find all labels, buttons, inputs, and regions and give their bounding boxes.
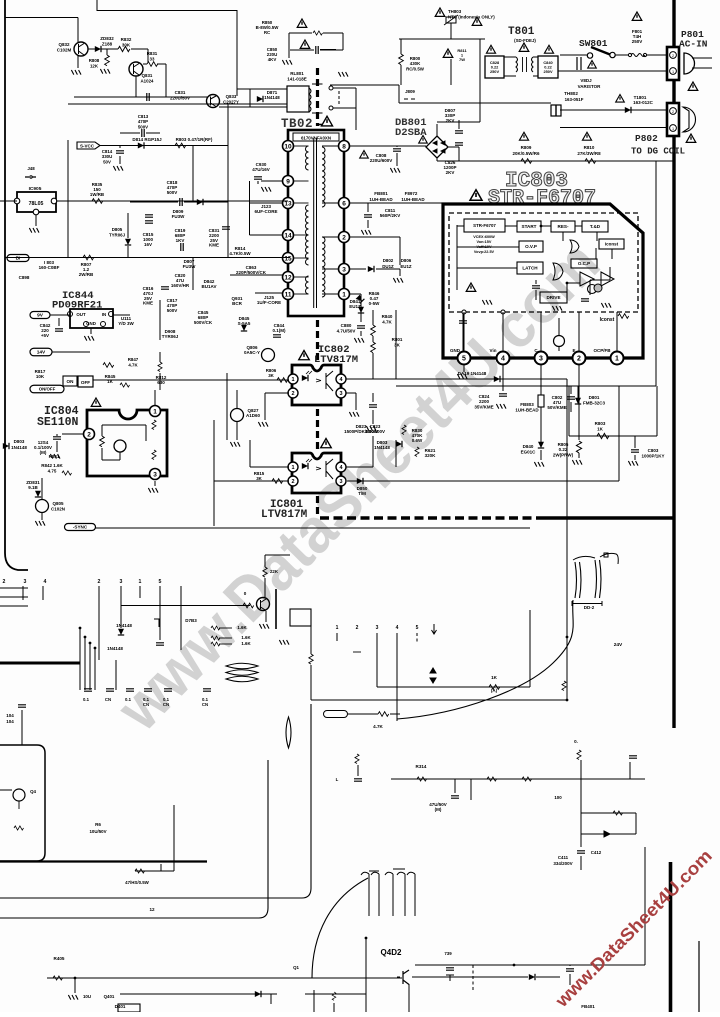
- svg-text:3: 3: [342, 266, 346, 273]
- svg-text:D807330P2KV: D807330P2KV: [445, 108, 456, 123]
- svg-text:3: 3: [376, 625, 379, 631]
- svg-text:T801: T801: [508, 26, 535, 38]
- svg-text:R405: R405: [54, 956, 65, 961]
- svg-text:3: 3: [120, 579, 123, 585]
- svg-text:ON/OFF: ON/OFF: [39, 387, 56, 392]
- svg-text:2: 2: [356, 625, 359, 631]
- svg-text:L: L: [336, 777, 339, 782]
- svg-text:D814 RGP15J: D814 RGP15J: [132, 137, 162, 142]
- svg-text:2: 2: [3, 579, 6, 585]
- svg-text:10U/50V: 10U/50V: [89, 829, 106, 834]
- svg-text:Vin: Vin: [490, 348, 497, 353]
- svg-text:C819680P1KV: C819680P1KV: [175, 228, 186, 243]
- svg-text:22K: 22K: [270, 569, 279, 574]
- svg-text:C816470J25VKME: C816470J25VKME: [143, 286, 154, 306]
- svg-text:104104: 104104: [6, 713, 14, 724]
- svg-text:15: 15: [284, 255, 292, 262]
- svg-text:J48: J48: [27, 166, 35, 171]
- svg-text:ON: ON: [67, 379, 75, 384]
- svg-text:1UH-BEAD: 1UH-BEAD: [369, 197, 393, 202]
- svg-text:5: 5: [416, 625, 419, 631]
- svg-text:100: 100: [554, 795, 562, 800]
- svg-text:163-051F: 163-051F: [565, 97, 584, 102]
- svg-text:27K/3W/R8: 27K/3W/R8: [577, 151, 601, 156]
- svg-text:1UH-BEAD: 1UH-BEAD: [401, 197, 425, 202]
- svg-text:10U: 10U: [83, 994, 91, 999]
- svg-text:AC-IN: AC-IN: [679, 39, 708, 50]
- svg-text:C8440.1(M): C8440.1(M): [272, 323, 286, 333]
- svg-text:Q1: Q1: [293, 965, 299, 970]
- svg-text:C8400.22250V: C8400.22250V: [543, 60, 553, 74]
- svg-text:739: 739: [444, 951, 452, 956]
- svg-text:START: START: [522, 224, 537, 229]
- svg-text:BI: BI: [16, 256, 21, 262]
- svg-text:SE110N: SE110N: [37, 416, 79, 429]
- svg-text:2: 2: [291, 479, 294, 485]
- svg-text:1K: 1K: [491, 675, 498, 680]
- svg-text:Q401: Q401: [104, 994, 115, 999]
- svg-text:C411: C411: [558, 855, 569, 860]
- svg-text:D806: D806: [401, 258, 412, 263]
- svg-text:1: 1: [672, 70, 674, 74]
- svg-text:C412: C412: [591, 850, 602, 855]
- svg-text:1.6K: 1.6K: [237, 625, 247, 630]
- svg-text:STR-F6707: STR-F6707: [473, 223, 496, 228]
- svg-text:DA19 1N4148: DA19 1N4148: [458, 371, 487, 376]
- svg-text:1: 1: [291, 465, 294, 471]
- svg-text:C831220025VKME: C831220025VKME: [209, 228, 220, 248]
- svg-text:9V: 9V: [37, 313, 44, 319]
- svg-text:(SD-FDEJ): (SD-FDEJ): [514, 38, 536, 43]
- svg-text:0.1: 0.1: [125, 697, 132, 702]
- svg-text:1: 1: [336, 625, 339, 631]
- svg-text:E: E: [572, 348, 575, 353]
- svg-text:10: 10: [284, 143, 292, 150]
- svg-text:Q832C102M: Q832C102M: [57, 42, 72, 52]
- svg-text:1: 1: [615, 356, 619, 363]
- svg-text:DU1Z: DU1Z: [382, 264, 394, 269]
- svg-text:2: 2: [87, 431, 91, 438]
- svg-text:C898: C898: [19, 275, 30, 280]
- svg-text:0.1CN: 0.1CN: [202, 697, 209, 707]
- svg-text:0.1CN: 0.1CN: [163, 697, 170, 707]
- svg-text:RES-: RES-: [558, 224, 569, 229]
- svg-text:2: 2: [577, 356, 581, 363]
- svg-text:1.6K: 1.6K: [241, 641, 251, 646]
- svg-text:R803 0.47/1R(RF): R803 0.47/1R(RF): [176, 137, 213, 142]
- svg-text:OFF: OFF: [81, 380, 90, 385]
- svg-text:TB02: TB02: [281, 117, 313, 131]
- svg-text:1: 1: [672, 127, 674, 131]
- svg-text:4: 4: [396, 625, 399, 631]
- svg-text:C817470P500V: C817470P500V: [167, 298, 178, 313]
- svg-text:VARISTOR: VARISTOR: [578, 84, 602, 89]
- svg-text:O.C.P: O.C.P: [578, 261, 590, 266]
- svg-text:P802: P802: [635, 133, 658, 144]
- svg-text:GND: GND: [450, 348, 461, 353]
- svg-text:1.6K: 1.6K: [241, 635, 251, 640]
- svg-text:Q4: Q4: [30, 789, 36, 794]
- svg-text:D802: D802: [383, 258, 394, 263]
- svg-text:14V: 14V: [37, 350, 46, 356]
- svg-text:0.1CN: 0.1CN: [143, 697, 150, 707]
- svg-text:5: 5: [159, 579, 162, 585]
- svg-text:3: 3: [153, 471, 157, 478]
- svg-text:24V: 24V: [614, 642, 623, 648]
- svg-text:(A): (A): [491, 688, 498, 693]
- svg-text:14: 14: [284, 232, 292, 239]
- svg-text:47/HS/0.5W: 47/HS/0.5W: [125, 880, 150, 885]
- svg-text:R810: R810: [584, 145, 595, 150]
- svg-text:DD-2: DD-2: [584, 605, 595, 610]
- svg-text:LATCH: LATCH: [522, 266, 538, 271]
- svg-text:V8DJ: V8DJ: [580, 78, 592, 83]
- svg-text:FB401: FB401: [581, 1004, 595, 1009]
- svg-text:S-VCC: S-VCC: [80, 144, 95, 149]
- svg-text:1: 1: [291, 377, 294, 383]
- svg-text:12: 12: [284, 274, 292, 281]
- svg-text:J809: J809: [405, 89, 415, 94]
- svg-text:R809: R809: [521, 145, 532, 150]
- svg-text:-SYNC: -SYNC: [73, 525, 88, 530]
- svg-text:1N4148: 1N4148: [116, 623, 132, 628]
- svg-text:Q831A1024: Q831A1024: [141, 73, 154, 83]
- svg-text:R6: R6: [95, 822, 101, 827]
- svg-text:1N4148: 1N4148: [11, 445, 27, 450]
- svg-text:O.V.P: O.V.P: [525, 244, 537, 249]
- svg-text:2: 2: [291, 391, 294, 397]
- svg-text:Iconst: Iconst: [600, 317, 615, 323]
- svg-text:OUT: OUT: [76, 312, 86, 317]
- svg-text:2: 2: [672, 54, 674, 58]
- svg-text:12: 12: [149, 907, 155, 912]
- svg-text:20K/0.5W/R6: 20K/0.5W/R6: [512, 151, 540, 156]
- svg-text:Q931BCR: Q931BCR: [231, 296, 243, 306]
- svg-text:TH802: TH802: [564, 91, 578, 96]
- svg-text:8: 8: [342, 143, 346, 150]
- svg-text:5: 5: [462, 356, 466, 363]
- svg-text:FB801: FB801: [374, 191, 388, 196]
- svg-text:D401: D401: [115, 1004, 126, 1009]
- svg-text:1: 1: [139, 579, 142, 585]
- svg-text:C818470P500V: C818470P500V: [167, 180, 178, 195]
- svg-text:6: 6: [342, 200, 346, 207]
- svg-text:F801T4H250V: F801T4H250V: [632, 29, 643, 44]
- svg-text:1: 1: [153, 408, 157, 415]
- svg-text:Q827A1D60: Q827A1D60: [246, 408, 261, 418]
- svg-text:EU1Z: EU1Z: [400, 264, 412, 269]
- svg-text:0.: 0.: [574, 739, 578, 744]
- svg-text:2: 2: [342, 234, 346, 241]
- svg-text:IN: IN: [102, 312, 106, 317]
- svg-text:R8474.7K: R8474.7K: [128, 357, 139, 367]
- svg-text:0.1: 0.1: [83, 697, 90, 702]
- svg-text:LTV817M: LTV817M: [314, 354, 358, 366]
- svg-text:T.&D: T.&D: [590, 224, 601, 229]
- svg-text:Q4D2: Q4D2: [381, 948, 402, 957]
- svg-text:11: 11: [285, 291, 292, 298]
- svg-text:C850220U4KV: C850220U4KV: [267, 47, 278, 62]
- svg-text:C813470P500V: C813470P500V: [138, 114, 149, 129]
- svg-text:9: 9: [286, 178, 290, 185]
- svg-text:STR-F6707: STR-F6707: [488, 187, 596, 210]
- svg-text:1: 1: [342, 291, 346, 298]
- svg-text:D842BU1AV: D842BU1AV: [202, 279, 217, 289]
- svg-text:LTV817M: LTV817M: [261, 509, 308, 521]
- svg-text:0: 0: [244, 591, 247, 596]
- svg-text:R841: R841: [49, 454, 60, 459]
- svg-text:4.7K: 4.7K: [373, 724, 383, 729]
- svg-text:3: 3: [339, 479, 342, 485]
- svg-text:Iconst: Iconst: [605, 242, 619, 247]
- svg-text:D803: D803: [14, 439, 25, 444]
- svg-text:2: 2: [98, 579, 101, 585]
- svg-text:TO DG COIL: TO DG COIL: [631, 147, 685, 157]
- svg-text:334/200V: 334/200V: [553, 861, 572, 866]
- svg-text:R8404.7K: R8404.7K: [382, 314, 393, 324]
- svg-text:4: 4: [44, 579, 47, 585]
- svg-text:R830470K0.6W: R830470K0.6W: [412, 428, 424, 443]
- svg-text:78L05: 78L05: [29, 201, 44, 207]
- svg-text:D807FU3W: D807FU3W: [183, 259, 197, 269]
- svg-text:R314: R314: [416, 764, 427, 769]
- svg-text:OCP/FB: OCP/FB: [593, 348, 611, 353]
- svg-text:D7B3: D7B3: [185, 618, 197, 623]
- svg-text:CN: CN: [105, 697, 111, 702]
- svg-text:DRIVE: DRIVE: [546, 295, 560, 300]
- svg-text:4: 4: [501, 356, 505, 363]
- svg-text:3: 3: [339, 391, 342, 397]
- svg-text:3: 3: [539, 356, 543, 363]
- svg-text:D845S-5A5: D845S-5A5: [238, 316, 251, 326]
- svg-text:F8972: F8972: [405, 191, 418, 196]
- svg-text:Q805C102N: Q805C102N: [51, 501, 65, 511]
- svg-text:3: 3: [24, 579, 27, 585]
- svg-text:2: 2: [672, 110, 674, 114]
- svg-text:1N4148: 1N4148: [107, 646, 123, 651]
- svg-text:D809FU3W: D809FU3W: [172, 209, 186, 219]
- svg-text:163-012C: 163-012C: [633, 100, 654, 105]
- svg-text:R621320K: R621320K: [425, 448, 437, 458]
